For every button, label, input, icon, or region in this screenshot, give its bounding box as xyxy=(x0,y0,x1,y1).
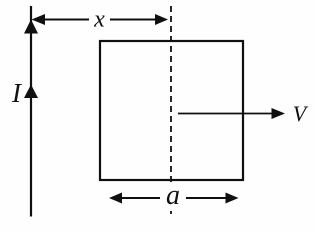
svg-text:x: x xyxy=(93,7,105,33)
svg-text:I: I xyxy=(11,78,23,108)
svg-text:V: V xyxy=(293,101,309,126)
svg-text:a: a xyxy=(166,180,180,211)
